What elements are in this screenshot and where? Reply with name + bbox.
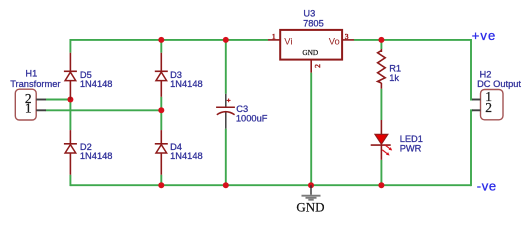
- ground symbol bar 2: [306, 197, 317, 199]
- ground symbol bar 1: [302, 195, 321, 197]
- junction R1 top on +ve bus: [378, 37, 384, 43]
- wire D3 top stub: [160, 40, 162, 53]
- wire C3 top: [225, 40, 227, 94]
- wire node B to D4 top: [160, 110, 162, 130]
- wire H1 pin1 to node B: [46, 109, 162, 111]
- wire U3 pin2 to ground rail: [310, 73, 312, 186]
- ground symbol stem: [310, 185, 312, 195]
- capacitor C3 curved plate: [217, 112, 235, 115]
- wire D3 bottom to node B: [160, 97, 162, 111]
- resistor R1 bottom lead: [380, 83, 382, 89]
- wire D4 bottom stub: [160, 175, 162, 186]
- svg-text:1N4148: 1N4148: [80, 151, 113, 161]
- H2 pin 1 stub: [472, 99, 481, 101]
- junction LED1 bottom on ground rail: [378, 182, 384, 188]
- svg-text:-ve: -ve: [477, 178, 497, 193]
- wire H1 pin2 to node A: [46, 99, 71, 101]
- junction C3 bottom on ground rail: [223, 182, 229, 188]
- svg-text:1k: 1k: [389, 73, 399, 83]
- svg-text:3: 3: [345, 32, 349, 41]
- capacitor C3 bottom pin: [225, 113, 227, 129]
- svg-text:DC Output: DC Output: [477, 79, 521, 89]
- svg-text:1: 1: [25, 101, 32, 116]
- diode D3 cathode lead: [160, 53, 162, 72]
- diode D4 cathode lead: [160, 130, 162, 144]
- LED1 anode lead: [380, 120, 382, 134]
- LED1 cathode bar: [371, 144, 391, 146]
- U3 pin 2 lead (GND): [310, 60, 312, 73]
- wire C3 bottom: [225, 129, 227, 186]
- svg-text:Transformer: Transformer: [10, 79, 60, 89]
- LED1 cathode lead: [380, 145, 382, 160]
- diode D2 triangle: [65, 145, 76, 153]
- junction node A (D5/D2/H1.2): [67, 97, 73, 103]
- wire H2 pin2 drop to -ve rail: [471, 110, 473, 186]
- diode D2 cathode lead: [69, 130, 71, 144]
- capacitor C3 plus plate: [216, 106, 235, 108]
- wire LED1 to ground rail: [380, 160, 382, 185]
- wire top bus left (bridge output to U3 Vi): [70, 39, 268, 41]
- svg-text:U3: U3: [303, 9, 315, 19]
- svg-text:1000uF: 1000uF: [236, 113, 268, 123]
- connector H1 body: [15, 89, 36, 120]
- svg-text:Vi: Vi: [284, 35, 292, 46]
- wire node A vertical (D5 cathode junction to D2 anode): [69, 100, 71, 131]
- wire D2 bottom stub: [69, 175, 71, 186]
- svg-text:GND: GND: [296, 199, 324, 214]
- capacitor C3 top pin: [225, 94, 227, 107]
- junction D3 top on +bus: [158, 37, 164, 43]
- connector H2 body: [481, 90, 504, 120]
- H2 pin 2 stub: [472, 109, 481, 111]
- svg-text:GND: GND: [302, 48, 318, 57]
- diode D5 cathode bar: [64, 70, 77, 72]
- diode D2 anode lead: [69, 153, 71, 175]
- svg-text:1: 1: [272, 32, 276, 41]
- svg-text:PWR: PWR: [400, 143, 422, 153]
- wire D5 top stub: [69, 39, 71, 53]
- junction D4 bottom on ground rail: [158, 182, 164, 188]
- diode D5 triangle: [65, 72, 76, 81]
- svg-text:1N4148: 1N4148: [80, 79, 113, 89]
- H1 pin 2 stub: [36, 99, 46, 101]
- U3 pin 3 lead (Vo): [342, 39, 354, 41]
- diode D2 cathode bar: [64, 143, 77, 145]
- resistor R1 top lead: [380, 49, 382, 52]
- diode D4 cathode bar: [155, 143, 168, 145]
- regulator U3 body: [280, 30, 342, 60]
- junction node B (D3/D4/H1.1): [158, 107, 164, 113]
- diode D3 cathode bar: [155, 70, 168, 72]
- diode D5 cathode lead: [69, 53, 71, 72]
- svg-text:H1: H1: [25, 69, 37, 79]
- LED1 emission arrow lower: [382, 150, 389, 156]
- junction C3 top on +bus: [223, 37, 229, 43]
- U3 pin 1 lead (Vi): [268, 39, 280, 41]
- svg-text:1N4148: 1N4148: [170, 151, 203, 161]
- svg-text:H2: H2: [480, 70, 492, 80]
- svg-text:2: 2: [485, 100, 492, 115]
- diode D3 triangle: [156, 72, 167, 81]
- C3 plus sign: [227, 99, 231, 103]
- diode D4 triangle: [156, 145, 167, 153]
- wire top bus right (U3 Vo to +ve corner): [354, 39, 471, 41]
- svg-text:1N4148: 1N4148: [170, 79, 203, 89]
- diode D4 anode lead: [160, 153, 162, 175]
- svg-text:Vo: Vo: [329, 35, 340, 46]
- wire +ve vertical drop to H2 pin1: [471, 39, 473, 100]
- junction GND on ground rail: [308, 182, 314, 188]
- svg-text:+ve: +ve: [472, 28, 497, 43]
- wire R1 to LED1: [380, 89, 382, 120]
- diode D5 anode lead: [69, 81, 71, 100]
- svg-text:2: 2: [313, 64, 322, 68]
- svg-text:7805: 7805: [303, 18, 324, 28]
- diode D3 anode lead: [160, 81, 162, 97]
- H1 pin 1 stub: [36, 109, 46, 111]
- resistor R1 zigzag: [378, 51, 386, 84]
- LED1 emission arrow upper: [385, 145, 392, 151]
- ground symbol bar 3: [308, 199, 313, 201]
- wire bottom bus (ground rail): [70, 184, 471, 186]
- LED1 triangle: [375, 134, 388, 144]
- wire R1 top stub: [380, 40, 382, 49]
